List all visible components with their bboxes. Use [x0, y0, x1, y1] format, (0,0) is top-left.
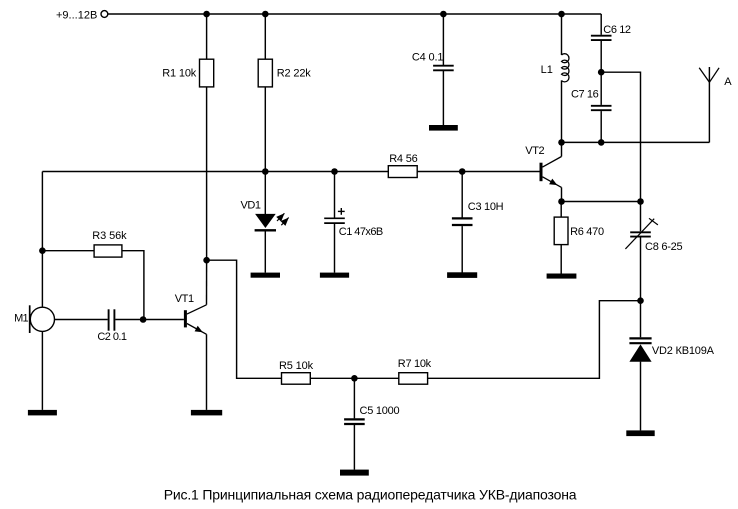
- node +V/C4: [440, 11, 447, 18]
- node mid rail/VD1: [262, 168, 269, 175]
- wire R1 to VT1 collector node: [206, 87, 208, 260]
- capacitor C6: [591, 36, 612, 40]
- wire C3 to ground: [461, 226, 463, 273]
- node R3/left column: [39, 247, 46, 254]
- transistor VT1 emitter diagonal: [187, 324, 207, 335]
- LED VD1 light arrows: [277, 213, 289, 225]
- node C2/VT1 base: [140, 316, 147, 323]
- wire +V rail: [108, 13, 601, 15]
- wire VT2 emitter row: [562, 201, 641, 203]
- wire L1 top: [561, 14, 563, 55]
- wire R2 to mid rail: [264, 87, 266, 172]
- wire C5 top: [353, 378, 355, 418]
- ground under C5: [340, 470, 369, 476]
- svg-text:VD2 КВ109А: VD2 КВ109А: [652, 345, 715, 357]
- transistor VT1 emitter arrow: [195, 326, 203, 333]
- wire C4 top: [442, 14, 444, 65]
- svg-text:R5 10k: R5 10k: [279, 360, 314, 372]
- svg-text:C2 0.1: C2 0.1: [97, 331, 127, 343]
- wire C4 to ground: [442, 71, 444, 125]
- ground under C4: [429, 125, 458, 131]
- svg-text:VT1: VT1: [175, 293, 194, 305]
- wire R6 to ground: [560, 245, 562, 274]
- plus sign of C1: [338, 208, 345, 215]
- transistor VT2 collector diagonal: [543, 157, 562, 168]
- node C8/VD2: [637, 297, 644, 304]
- svg-text:R1 10k: R1 10k: [162, 67, 197, 79]
- wire C5 to ground: [353, 425, 355, 470]
- antenna A: [699, 68, 719, 83]
- resistor R7: [399, 373, 428, 385]
- capacitor C3: [452, 218, 473, 225]
- svg-text:L1: L1: [541, 64, 553, 76]
- ground under C3: [447, 272, 477, 278]
- wire mid rail left: [42, 171, 388, 173]
- svg-text:VT2: VT2: [525, 145, 544, 157]
- wire R2 top: [264, 14, 266, 59]
- svg-text:C5 1000: C5 1000: [360, 405, 400, 417]
- capacitor C1 (electrolytic): [324, 218, 345, 223]
- wire VT2 emitter vertical: [561, 187, 563, 201]
- ground under VT1: [191, 410, 222, 416]
- capacitor C5: [344, 419, 365, 424]
- node R5/C5/R7: [351, 375, 358, 382]
- ground under R6: [547, 274, 577, 279]
- resistor R5: [282, 373, 311, 385]
- transistor VT2 base bar: [540, 163, 543, 182]
- wire VT1 emitter to ground: [206, 334, 208, 410]
- node +V/R1: [203, 11, 210, 18]
- wire R3 right to C2 node: [122, 251, 144, 320]
- inductor L1: [562, 54, 569, 82]
- svg-text:R3 56k: R3 56k: [92, 230, 127, 242]
- svg-text:R2 22k: R2 22k: [277, 67, 312, 79]
- svg-text:Рис.1 Принципиальная схема рад: Рис.1 Принципиальная схема радиопередатч…: [164, 487, 577, 503]
- ground under C1: [320, 273, 349, 278]
- resistor R4: [388, 166, 417, 178]
- svg-text:C1 47x6В: C1 47x6В: [339, 226, 383, 238]
- node mid rail/C3: [459, 168, 466, 175]
- wire C2 to VT1 base: [115, 319, 184, 321]
- wire VD1 cathode to ground: [264, 231, 266, 272]
- wire VD1 anode: [264, 172, 266, 215]
- wire R1 top: [206, 14, 208, 59]
- svg-text:VD1: VD1: [241, 200, 261, 212]
- wire R3 left: [42, 250, 94, 252]
- node emitter row/C8: [637, 198, 644, 205]
- wire C1 top: [334, 172, 336, 218]
- transistor VT2 emitter arrow: [549, 179, 557, 186]
- svg-text:C4 0.1: C4 0.1: [412, 51, 444, 63]
- wire L1 bottom: [561, 80, 563, 142]
- wire C3 top: [461, 172, 463, 218]
- trimmer arrow head of C8: [649, 218, 658, 225]
- transistor VT1 collector diagonal: [187, 305, 207, 314]
- capacitor C7: [591, 106, 612, 110]
- resistor R6: [554, 217, 568, 245]
- svg-text:C8 6-25: C8 6-25: [645, 241, 683, 253]
- resistor R1: [200, 59, 214, 87]
- wire left column to M1: [41, 172, 43, 308]
- wire C1 to ground: [334, 224, 336, 273]
- wire VT2 collector vertical: [561, 142, 563, 156]
- svg-text:R4 56: R4 56: [389, 153, 417, 165]
- wire C6 top feed: [600, 14, 602, 35]
- wire C6-C7 link: [600, 41, 602, 105]
- node +V/R2: [262, 11, 269, 18]
- capacitor C4: [433, 66, 454, 71]
- wire R5 to C5 node to R7: [310, 377, 399, 379]
- ground under VD2: [626, 430, 654, 436]
- capacitor C2: [109, 309, 115, 330]
- wire VT1 collector vertical: [206, 260, 208, 305]
- wire M1 to ground: [41, 332, 43, 410]
- wire M1 to C2: [55, 319, 108, 321]
- resistor R3: [94, 245, 122, 257]
- svg-text:C6 12: C6 12: [603, 24, 631, 36]
- wire feedback collector to R5: [207, 260, 282, 378]
- svg-text:R7 10k: R7 10k: [398, 358, 432, 370]
- ground under VD1: [251, 273, 280, 278]
- node VT2 emitter/R6: [558, 198, 565, 205]
- resistor R2: [258, 59, 272, 87]
- svg-text:R6 470: R6 470: [570, 226, 604, 238]
- node mid rail/C1: [331, 168, 338, 175]
- node VT1 collector: [203, 257, 210, 264]
- svg-text:C7 16: C7 16: [571, 89, 599, 101]
- power terminal +9...12V: [101, 11, 108, 18]
- wire VT2 collector rail: [562, 141, 710, 143]
- LED VD1: [255, 214, 276, 230]
- varicap VD2: [629, 338, 651, 361]
- ground under M1: [28, 410, 57, 416]
- wire C7 to collector rail: [600, 111, 602, 142]
- wire antenna mast: [708, 67, 710, 142]
- wire R7 to VD2 node: [428, 301, 641, 379]
- node C7/collector rail: [598, 139, 605, 146]
- capacitor C8 (trimmer): [630, 232, 651, 236]
- wire mid rail right: [417, 171, 539, 173]
- svg-text:M1: M1: [14, 313, 28, 325]
- node +V/L1: [558, 11, 565, 18]
- svg-text:C3 10Н: C3 10Н: [468, 201, 504, 213]
- wire C6C7 node to C8 column: [601, 72, 640, 231]
- wire VD2 anode to ground: [640, 362, 642, 431]
- microphone M1: [30, 305, 55, 333]
- node C6/C7: [598, 69, 605, 76]
- transistor VT1 base bar: [184, 310, 187, 327]
- svg-text:A: A: [724, 76, 732, 88]
- node L1/collector rail: [558, 139, 565, 146]
- trimmer arrow of C8: [625, 219, 654, 249]
- wire C8 to VD2: [640, 237, 642, 337]
- svg-text:+9...12В: +9...12В: [56, 9, 97, 21]
- transistor VT2 emitter diagonal: [543, 177, 562, 188]
- wire R6 top: [560, 202, 562, 218]
